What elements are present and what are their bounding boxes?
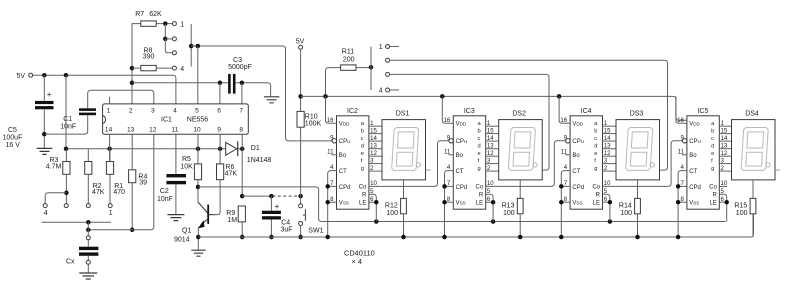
terminal SW1 bottom contact (299, 222, 303, 226)
switch SW1 (300, 196, 302, 204)
svg-text:d: d (478, 144, 481, 150)
node C5/C1 bottom junction (42, 132, 47, 137)
IC4 Vdd pin wire (559, 96, 570, 123)
IC2 Vdd pin wire (326, 96, 337, 123)
wire DP select to DS2 (390, 74, 549, 170)
terminal right 2 (386, 58, 390, 62)
svg-text:5V: 5V (296, 38, 305, 45)
svg-text:100: 100 (386, 210, 398, 217)
svg-text:IC3: IC3 (464, 108, 475, 115)
wire oscillator signal to IC2 CPu (191, 46, 333, 141)
node IC2 R-LE tap (374, 219, 379, 224)
svg-text:4: 4 (379, 88, 383, 95)
svg-text:CPd: CPd (689, 185, 701, 191)
wire R9 bottom to ground bus (241, 222, 243, 237)
display DS1 (382, 120, 426, 180)
node R9 on ground bus (240, 235, 245, 240)
wire IC4 R/LE to reset line (603, 194, 610, 221)
svg-text:16 V: 16 V (6, 142, 21, 149)
node emitter on ground bus (196, 235, 201, 240)
svg-text:R: R (596, 193, 601, 199)
svg-text:C3: C3 (233, 57, 242, 64)
terminal 4 left connector (172, 66, 176, 70)
svg-text:1N4148: 1N4148 (247, 157, 272, 164)
wire R3 top (65, 149, 67, 162)
terminal range 3 (64, 204, 68, 208)
wire ground bus (198, 214, 753, 237)
svg-text:e: e (361, 151, 364, 157)
wire C1 bottom to C5 bottom (44, 115, 87, 134)
svg-text:DS4: DS4 (745, 110, 759, 117)
svg-text:14: 14 (105, 127, 113, 134)
node right bracket tap (369, 65, 374, 70)
svg-text:4: 4 (173, 107, 177, 114)
resistor R1 (106, 162, 113, 175)
wire pin2 to C3 left (132, 82, 228, 84)
ground under C2 (167, 215, 184, 221)
svg-text:CT: CT (689, 169, 697, 175)
wire to terminal 3 (165, 39, 172, 53)
DS3 7-segment digit (626, 128, 653, 171)
svg-text:R13: R13 (502, 203, 515, 210)
svg-text:Co: Co (709, 185, 717, 191)
DS3 decimal point (650, 163, 654, 167)
svg-text:13: 13 (127, 127, 135, 134)
svg-text:Cx: Cx (66, 258, 75, 265)
wire to terminal 2 (165, 38, 172, 40)
node terminal 1 junction (163, 21, 168, 26)
svg-text:NE556: NE556 (187, 116, 209, 123)
terminal right 1 (386, 45, 390, 49)
wire IC1 pin 1 stub (109, 97, 111, 104)
wire R5 bottom to Q1 base node (197, 180, 199, 202)
svg-text:LE: LE (476, 200, 483, 206)
svg-text:g: g (361, 166, 364, 172)
ground under Cx (79, 273, 97, 279)
terminal Cx top (86, 236, 90, 240)
IC3 CPu bubble (449, 139, 453, 143)
svg-text:1: 1 (180, 21, 184, 28)
svg-text:c: c (478, 136, 481, 142)
node R4/pin12 wire (130, 228, 135, 233)
svg-text:3: 3 (151, 107, 155, 114)
svg-text:Bo: Bo (339, 153, 347, 159)
resistor R3 (63, 162, 70, 175)
node Q1 base / reset wire (196, 185, 201, 190)
IC3 CT/CPd/Vss ground wires (445, 171, 454, 237)
resistor R11 (341, 65, 356, 70)
DS1 dp stub (426, 169, 431, 171)
wire right terminal 4 stub (390, 89, 399, 91)
svg-text:100: 100 (620, 210, 632, 217)
svg-text:9: 9 (217, 127, 221, 134)
node R9 top (240, 194, 245, 199)
IC5 CT/CPd/Vss ground wires (678, 171, 687, 237)
wire 5V rail left to IC1 pin 4 (33, 75, 176, 104)
svg-text:SW1: SW1 (308, 227, 323, 234)
svg-text:R7: R7 (135, 11, 144, 18)
svg-text:R10: R10 (305, 113, 318, 120)
svg-text:CT: CT (572, 169, 580, 175)
svg-text:DS3: DS3 (630, 110, 644, 117)
resistor R6 (217, 164, 224, 180)
wire R1 bottom (109, 174, 111, 203)
node IC4 R-LE tap (608, 219, 613, 224)
resistor R10 (297, 111, 304, 127)
node pin2/C3 wire junction (130, 81, 135, 86)
svg-text:4: 4 (180, 66, 184, 73)
svg-text:7: 7 (239, 107, 243, 114)
terminal SW1 top contact (299, 204, 303, 208)
resistor R12 (403, 180, 405, 199)
capacitor C3 (228, 74, 231, 94)
DS4 dp stub (775, 169, 780, 171)
svg-text:b: b (361, 128, 364, 134)
node C5 top junction (42, 73, 47, 78)
svg-text:Bo: Bo (456, 153, 464, 159)
wire carry IC4 Co to IC5 CPu (603, 141, 683, 187)
svg-text:e: e (478, 151, 481, 157)
resistor R15 (752, 180, 754, 199)
wire IC5 Co stub (719, 185, 727, 187)
node pin10/R5 top (196, 147, 201, 152)
wire IC1 pin10 to R5 (197, 134, 199, 164)
wire IC1 pin 7 up (241, 83, 243, 104)
svg-text:3uF: 3uF (281, 226, 293, 233)
wire C5 bottom to ground (43, 109, 45, 148)
resistor R2 (85, 162, 92, 175)
svg-text:C5: C5 (8, 127, 17, 134)
transistor Q1 9014 (198, 202, 208, 213)
svg-text:5V: 5V (17, 73, 26, 80)
svg-text:8: 8 (239, 127, 243, 134)
resistor R13 (519, 180, 521, 199)
svg-text:5: 5 (195, 107, 199, 114)
node SW1 top (298, 194, 303, 199)
wire R1 top (109, 149, 111, 162)
svg-text:C1: C1 (63, 116, 72, 123)
svg-text:e: e (711, 151, 714, 157)
node R3 bottom split (64, 191, 69, 196)
DS2 7-segment digit (508, 128, 535, 171)
ground under Q1 (191, 250, 206, 256)
svg-text:× 4: × 4 (352, 257, 362, 266)
svg-text:C4: C4 (281, 219, 290, 226)
wire carry IC3 Co to IC4 CPu (486, 141, 566, 187)
wire left connector bracket (190, 24, 192, 67)
node terminal 2 junction (163, 37, 168, 42)
resistor R4 (129, 170, 136, 183)
svg-text:g: g (594, 166, 597, 172)
wire carry IC2 Co to IC3 CPu (369, 141, 449, 187)
svg-text:Co: Co (592, 185, 600, 191)
IC4 CT/CPd/Vss ground wires (561, 171, 570, 237)
svg-text:11: 11 (171, 127, 178, 134)
svg-text:39: 39 (139, 180, 147, 187)
wire R2 top (87, 149, 89, 162)
wire right connector bracket (370, 47, 372, 91)
svg-text:47K: 47K (92, 189, 105, 196)
svg-text:e: e (594, 151, 597, 157)
wire R3 bottom to terminal (65, 174, 67, 203)
node C4 on ground bus (269, 235, 274, 240)
node Cx top on range common (86, 220, 91, 225)
wire R7 left down to IC1 pin 2 (132, 24, 141, 104)
node IC1 pin5 junction (196, 44, 201, 49)
counter IC2 CD40110 (337, 116, 369, 209)
svg-text:1: 1 (109, 210, 113, 217)
svg-text:R11: R11 (342, 48, 354, 55)
IC2 Bo stub (332, 154, 337, 156)
svg-text:10nF: 10nF (60, 124, 76, 131)
svg-text:470: 470 (113, 189, 125, 196)
wire IC1 pin 5 up (197, 46, 199, 104)
wire Q1 collector to R6 (212, 180, 220, 215)
capacitor C1 (79, 108, 96, 111)
IC3 Vdd pin wire (442, 96, 453, 123)
svg-text:Q1: Q1 (182, 227, 191, 234)
svg-text:2: 2 (129, 107, 133, 114)
svg-text:LE: LE (359, 200, 366, 206)
DS2 decimal point (533, 163, 537, 167)
svg-text:4: 4 (44, 210, 48, 217)
svg-text:CPd: CPd (339, 185, 351, 191)
IC2 CPu bubble (332, 139, 336, 143)
svg-text:R12: R12 (385, 203, 398, 210)
svg-text:CT: CT (339, 169, 347, 175)
IC5 CPu bubble (683, 139, 687, 143)
wire R11 right to bracket (356, 67, 371, 69)
wire IC2 R/LE to reset line (369, 194, 376, 221)
wire IC3 R/LE to reset line (486, 194, 493, 221)
counter IC5 CD40110 (687, 116, 719, 209)
DS1 7-segment digit (392, 128, 419, 171)
svg-text:R: R (479, 193, 484, 199)
IC5 Vdd pin wire (676, 96, 687, 123)
svg-text:LE: LE (593, 200, 600, 206)
svg-text:R14: R14 (619, 203, 632, 210)
svg-text:+: + (275, 202, 280, 211)
Q1 emitter with arrow (201, 219, 208, 225)
node IC4 Vdd feed (557, 94, 562, 99)
node IC3 Vdd feed (440, 94, 445, 99)
node IC3 R-LE tap (491, 219, 496, 224)
svg-text:R5: R5 (182, 156, 191, 163)
svg-text:CPd: CPd (456, 185, 468, 191)
terminal Cx bottom (86, 260, 90, 264)
diode D1 1N4148 (226, 142, 237, 155)
svg-text:100uF: 100uF (3, 134, 23, 141)
terminal range 1 (108, 204, 112, 208)
svg-text:47K: 47K (225, 170, 238, 177)
svg-text:DS2: DS2 (512, 110, 526, 117)
terminal right 3 (386, 72, 390, 76)
svg-text:d: d (361, 144, 364, 150)
resistor R14 (637, 180, 639, 199)
wire IC1 pin 6 up (219, 83, 221, 104)
node IC2 Vdd feed (323, 94, 328, 99)
svg-text:c: c (711, 136, 714, 142)
wire IC1 pin13 to R4 (131, 134, 133, 170)
wire R10 bottom to SW1 node (300, 127, 302, 196)
node pin14/R1 top (107, 147, 112, 152)
terminal 5V mid (299, 45, 303, 49)
display DS4 (732, 120, 776, 180)
wire Q1 emitter to ground (197, 227, 199, 250)
node R8 left junction (130, 66, 135, 71)
IC3 Bo stub (448, 154, 453, 156)
wire 5V rail counters (301, 96, 687, 120)
svg-text:62K: 62K (149, 11, 162, 18)
svg-text:6: 6 (217, 107, 221, 114)
wire DP select to DS3 (390, 60, 668, 170)
wire 5V vertical down (65, 75, 67, 149)
svg-text:4.7M: 4.7M (46, 163, 62, 170)
counter IC4 CD40110 (570, 116, 602, 209)
terminal 2 left connector (172, 37, 176, 41)
svg-text:10: 10 (193, 127, 201, 134)
node IC1 pin7 junction (240, 81, 245, 86)
terminal range 2 (86, 204, 90, 208)
DS4 7-segment digit (741, 128, 768, 171)
svg-text:g: g (478, 166, 481, 172)
svg-text:b: b (711, 128, 714, 134)
svg-text:10nF: 10nF (157, 196, 173, 203)
node R3 top (64, 147, 69, 152)
node C4 top (269, 194, 274, 199)
svg-text:c: c (361, 136, 364, 142)
wire IC5 R/LE to reset line (719, 194, 726, 221)
svg-text:CT: CT (456, 169, 464, 175)
node pin8/D1 cathode (240, 147, 245, 152)
svg-text:d: d (711, 144, 714, 150)
wire 5V node under IC1 (66, 148, 242, 150)
wire IC1 pin9 to R6 (219, 134, 221, 164)
svg-text:IC5: IC5 (697, 108, 708, 115)
capacitor C5 (43, 75, 45, 101)
wire R9 node to C4 (242, 195, 271, 197)
wire IC1 pin8 down to R9 node (241, 134, 243, 196)
counter IC3 CD40110 (453, 116, 485, 209)
IC4 Bo stub (565, 154, 570, 156)
svg-text:+: + (47, 90, 52, 99)
wire right terminal 1 stub (390, 46, 399, 48)
svg-text:Bo: Bo (689, 153, 697, 159)
resistor R7 (141, 21, 156, 26)
DS1 decimal point (416, 163, 420, 167)
terminal range 4 (43, 204, 47, 208)
svg-text:100: 100 (736, 210, 748, 217)
svg-text:100: 100 (503, 210, 515, 217)
svg-text:1M: 1M (227, 217, 237, 224)
svg-text:9014: 9014 (174, 236, 190, 243)
ground under C3 (264, 97, 280, 103)
wire R4 bottom (131, 183, 133, 230)
svg-text:LE: LE (709, 200, 716, 206)
svg-text:IC4: IC4 (581, 108, 592, 115)
svg-text:200: 200 (343, 56, 355, 63)
display DS3 (616, 120, 660, 180)
svg-text:b: b (478, 128, 481, 134)
svg-text:DS1: DS1 (396, 110, 410, 117)
node 5V feed down junction (64, 73, 69, 78)
display DS2 (499, 120, 543, 180)
wire R8 right to terminal 4 (156, 67, 172, 69)
node pin9/R6 top (218, 147, 223, 152)
wire R7 right to terminal 1 (156, 23, 172, 25)
svg-text:100K: 100K (305, 121, 322, 128)
terminal 5V left (29, 73, 33, 77)
svg-text:Bo: Bo (572, 153, 580, 159)
wire R11 left to 5V rail (326, 68, 341, 97)
wire C3 right to ground (236, 83, 271, 96)
svg-text:5000pF: 5000pF (228, 64, 252, 71)
svg-text:g: g (711, 166, 714, 172)
wire range common (42, 221, 111, 223)
svg-text:b: b (594, 128, 597, 134)
svg-text:1: 1 (379, 44, 383, 51)
capacitor C2 (175, 134, 177, 174)
svg-text:R: R (362, 193, 367, 199)
svg-text:CPd: CPd (572, 185, 584, 191)
wire reset/latch line (198, 187, 726, 222)
IC2 CT/CPd/Vss ground wires (328, 171, 337, 237)
node 5V rail start (298, 94, 303, 99)
svg-text:D1: D1 (251, 145, 260, 152)
IC5 Bo stub (682, 154, 687, 156)
svg-text:390: 390 (143, 54, 155, 61)
svg-text:Co: Co (476, 185, 484, 191)
capacitor Cx (87, 222, 89, 236)
terminal 1 left connector (172, 22, 176, 26)
svg-text:Co: Co (359, 185, 367, 191)
svg-text:c: c (594, 136, 597, 142)
wire R8 left (132, 67, 141, 69)
node SW1 on ground bus (298, 235, 303, 240)
wire R3 to range terminal 4 (45, 193, 66, 204)
IC4 CPu bubble (566, 139, 570, 143)
wire R2 bottom (87, 174, 89, 203)
terminal right 4 (386, 88, 390, 92)
svg-text:IC2: IC2 (347, 108, 358, 115)
wire Cx node to IC1 pin 12 (88, 134, 154, 230)
wire IC1 pin14 to R1 (109, 134, 111, 161)
wire dashed C4 to SW1 (273, 195, 300, 197)
ground under C5 (37, 148, 53, 154)
svg-text:IC1: IC1 (161, 116, 172, 123)
svg-text:C2: C2 (160, 188, 169, 195)
resistor R8 (141, 65, 156, 70)
terminal 3 left connector (172, 51, 176, 55)
node Cx branch (86, 228, 91, 233)
svg-text:R15: R15 (734, 203, 747, 210)
wire C1 top to IC1 pin 3 (88, 90, 154, 108)
svg-text:12: 12 (149, 127, 157, 134)
resistor R9 (238, 206, 245, 222)
svg-text:R: R (712, 193, 717, 199)
wire 5V mid down to R10 (300, 49, 302, 111)
resistor R5 (194, 164, 201, 180)
node bracket tap (189, 44, 194, 49)
wire terminal chain down (164, 24, 166, 39)
op-amp/timer IC1 NE556 box (103, 104, 249, 134)
svg-text:1: 1 (107, 107, 111, 114)
svg-text:d: d (594, 144, 597, 150)
svg-text:10K: 10K (180, 164, 193, 171)
DS4 decimal point (766, 163, 770, 167)
node IC1 pin6 junction (218, 81, 223, 86)
